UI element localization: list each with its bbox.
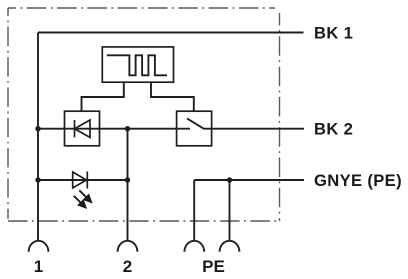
terminal PE right socket [220, 241, 240, 252]
svg-text:2: 2 [123, 257, 132, 276]
diode V1 box [65, 111, 100, 146]
LED V2 arrow upper [79, 190, 92, 202]
wire vertical to terminal 2 [127, 129, 129, 240]
enclosure dash-dot border right [279, 13, 281, 221]
svg-text:PE: PE [202, 257, 225, 276]
terminal PE left socket [184, 241, 204, 252]
wire left vertical from BK1 corner to terminal 1 [37, 33, 39, 241]
wire LED branch horizontal [38, 179, 128, 181]
svg-text:BK 1: BK 1 [314, 23, 353, 42]
terminal 1 socket [29, 241, 49, 252]
pulse generator U1 box [102, 47, 173, 82]
diode V1 symbol [75, 120, 91, 137]
switch contact S1 box [177, 111, 212, 146]
LED V2 arrow lower [74, 196, 87, 208]
wire BK1 horizontal [38, 32, 304, 34]
LED V2 symbol [73, 172, 88, 189]
wire BK2 horizontal left of switch gap [38, 128, 190, 130]
junction dot GNYE [227, 177, 232, 182]
wire BK2 horizontal right of switch gap [204, 128, 304, 130]
wire GNYE horizontal [194, 179, 304, 181]
svg-text:GNYE (PE): GNYE (PE) [314, 171, 402, 190]
enclosure dash-dot border left [7, 8, 9, 219]
junction dot LED wire left [35, 177, 40, 182]
switch contact S1 blade [187, 118, 204, 129]
wire PE left drop [193, 180, 195, 240]
junction dot BK2 mid [125, 126, 130, 131]
junction dot BK2 left [35, 126, 40, 131]
svg-text:BK 2: BK 2 [314, 120, 353, 139]
junction dot LED wire right [125, 177, 130, 182]
wire PE right drop [229, 180, 231, 240]
wire pulse box left leg [82, 82, 124, 111]
enclosure dash-dot border top [8, 7, 275, 9]
wire pulse box right leg [151, 82, 194, 111]
pulse generator U1 waveform [107, 55, 167, 75]
terminal 2 socket [118, 241, 138, 252]
enclosure dash-dot border bottom [8, 220, 279, 222]
svg-text:1: 1 [34, 257, 43, 276]
